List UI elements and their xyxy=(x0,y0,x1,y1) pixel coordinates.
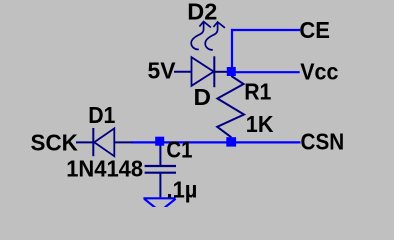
svg-text:C1: C1 xyxy=(166,136,192,162)
svg-text:1N4148: 1N4148 xyxy=(66,155,143,181)
svg-text:SCK: SCK xyxy=(31,129,78,155)
svg-text:R1: R1 xyxy=(244,79,271,105)
resistor R1 zigzag xyxy=(217,76,244,137)
capacitor C1 bottom lead xyxy=(159,174,161,198)
svg-text:5V: 5V xyxy=(148,57,176,83)
junction node at D2 cathode / R1 top xyxy=(227,67,236,76)
ground right side xyxy=(159,199,175,212)
wire CE horizontal xyxy=(231,29,300,31)
svg-text:D2: D2 xyxy=(187,0,217,24)
svg-text:D: D xyxy=(194,84,212,110)
diode D1 anode lead (from SCK) xyxy=(76,141,93,143)
wire Vcc xyxy=(236,71,300,73)
diode D2 anode lead xyxy=(174,71,191,73)
svg-text:1K: 1K xyxy=(246,111,274,137)
wire CE vertical xyxy=(231,29,233,68)
wire node R1 to CSN xyxy=(236,141,301,143)
LED D2 light arrow left xyxy=(191,22,211,50)
ground bar xyxy=(143,197,175,199)
wire node C1 to node R1 xyxy=(164,141,228,143)
diode D1 cathode bar xyxy=(92,128,94,156)
diode D2 cathode lead xyxy=(214,71,228,73)
diode D2 triangle xyxy=(192,57,214,86)
svg-text:.1µ: .1µ xyxy=(167,177,198,203)
svg-text:CSN: CSN xyxy=(301,128,345,154)
capacitor C1 top plate xyxy=(145,165,176,167)
junction node C1 xyxy=(155,137,164,146)
diode D2 cathode bar xyxy=(213,56,215,87)
capacitor C1 bottom plate xyxy=(145,172,176,174)
svg-text:CE: CE xyxy=(299,17,330,43)
junction node R1 bottom xyxy=(226,137,236,146)
diode D1 cathode-side lead xyxy=(114,141,132,143)
LED D2 light arrow right xyxy=(205,22,225,50)
wire D1 to node C1 xyxy=(131,141,156,143)
capacitor C1 top lead xyxy=(159,145,161,165)
svg-text:Vcc: Vcc xyxy=(300,58,338,84)
svg-text:D1: D1 xyxy=(88,102,115,128)
diode D1 triangle xyxy=(94,128,114,156)
ground left side xyxy=(144,199,160,212)
